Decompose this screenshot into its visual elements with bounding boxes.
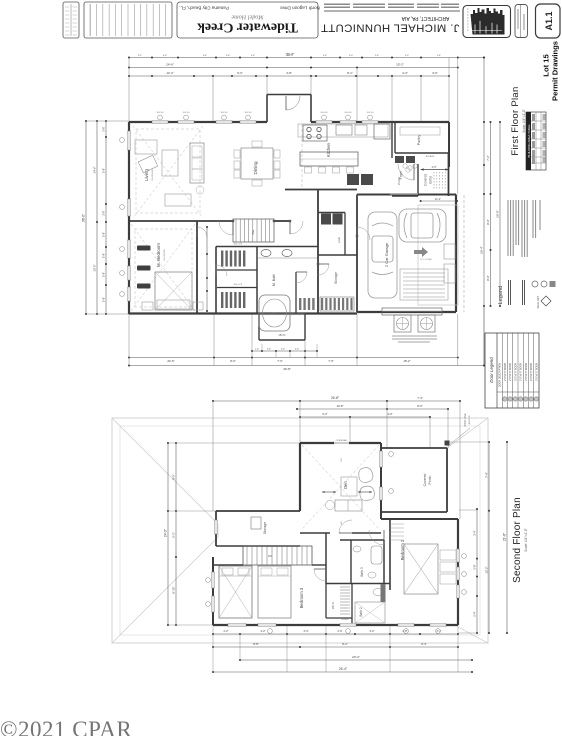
bed master	[155, 272, 192, 310]
svg-text:3050 SH: 3050 SH	[321, 112, 329, 114]
tub bay bump bottom	[258, 314, 260, 341]
svg-text:OPEN RAIL: OPEN RAIL	[336, 439, 348, 442]
svg-text:Kitchen: Kitchen	[326, 142, 331, 157]
svg-text:15'-2": 15'-2"	[403, 359, 410, 363]
svg-text:3'-2": 3'-2"	[370, 630, 375, 633]
title block: sheet info box	[63, 2, 79, 38]
wic (2nd floor)	[351, 584, 353, 625]
svg-text:BI-PASS: BI-PASS	[342, 618, 350, 621]
right wall pantry to garage	[448, 153, 450, 196]
svg-text:ARCHITECT, PA, AIA: ARCHITECT, PA, AIA	[401, 15, 449, 21]
svg-text:Lot 15: Lot 15	[542, 54, 551, 77]
legend: symbols	[532, 281, 538, 287]
svg-text:7'-0": 7'-0"	[277, 359, 283, 363]
svg-text:DN: DN	[268, 554, 272, 558]
svg-text:2'-8": 2'-8"	[403, 630, 408, 633]
svg-text:24'-6": 24'-6"	[167, 359, 174, 363]
entry closet dark band	[395, 156, 404, 163]
window tag circles (first floor)	[158, 115, 163, 120]
svg-text:W.I.C.: W.I.C.	[331, 601, 335, 609]
svg-text:2'-4": 2'-4"	[281, 349, 286, 351]
bed 2	[404, 544, 438, 594]
svg-text:Covered: Covered	[424, 174, 428, 186]
svg-text:JET: JET	[272, 313, 277, 315]
svg-text:Entry: Entry	[429, 176, 433, 184]
svg-text:First Floor Plan: First Floor Plan	[510, 86, 521, 155]
svg-text:6'6 x 7'6: 6'6 x 7'6	[234, 244, 243, 246]
stairs first floor	[233, 219, 274, 242]
appliances: range + sink icons	[303, 125, 327, 141]
svg-text:13'-2": 13'-2"	[485, 566, 489, 573]
kitchen counters	[298, 124, 388, 137]
svg-text:8'-0": 8'-0"	[486, 219, 490, 224]
garage walls	[357, 194, 456, 196]
garage door bottom	[382, 308, 442, 315]
svg-text:7'-4": 7'-4"	[417, 396, 423, 400]
bath 3	[350, 540, 352, 583]
svg-text:6'-2": 6'-2"	[172, 532, 176, 538]
svg-text:3'-0": 3'-0"	[163, 55, 167, 57]
svg-text:3'-6": 3'-6"	[102, 210, 106, 215]
window bars (egress)	[137, 246, 151, 289]
title block: project name box (Tidewater Creek)	[177, 2, 318, 38]
svg-text:3'-4": 3'-4"	[203, 55, 207, 57]
svg-text:4'-6": 4'-6"	[387, 412, 392, 416]
svg-text:2'-6": 2'-6"	[375, 55, 379, 57]
island	[300, 152, 358, 166]
svg-text:Bath 3: Bath 3	[360, 567, 364, 576]
bedroom 3	[212, 557, 214, 625]
svg-text:3'-6": 3'-6"	[102, 297, 106, 302]
svg-text:6'-4": 6'-4"	[421, 642, 427, 646]
svg-text:3'-6": 3'-6"	[102, 253, 106, 258]
dimension tiers: left	[85, 121, 87, 314]
dimension tiers: top (second floor)	[213, 400, 460, 402]
svg-text:Tidewater Creek: Tidewater Creek	[197, 20, 298, 35]
svg-text:4'-3": 4'-3"	[402, 71, 408, 75]
windows bottom wall (2nd)	[228, 623, 246, 626]
svg-text:26'-0": 26'-0"	[496, 210, 500, 218]
svg-text:DOOR DESCRIPTION: DOOR DESCRIPTION	[499, 363, 502, 387]
svg-text:8'-0": 8'-0"	[230, 359, 236, 363]
svg-text:3050 SH: 3050 SH	[245, 112, 253, 114]
svg-text:Den: Den	[343, 480, 348, 488]
svg-text:1'-2": 1'-2"	[255, 349, 260, 351]
title block: revisions box	[84, 2, 172, 38]
svg-text:8'-10": 8'-10"	[172, 586, 176, 593]
svg-text:26'-4": 26'-4"	[480, 246, 484, 254]
chase strip	[381, 584, 386, 602]
svg-text:Porch: Porch	[428, 475, 432, 484]
car 2 (horizontal sedan)	[399, 209, 446, 242]
svg-text:North Lagoon Drive: North Lagoon Drive	[280, 6, 320, 11]
svg-text:2'-0": 2'-0"	[349, 55, 353, 57]
svg-text:6'-0": 6'-0"	[237, 71, 243, 75]
dimension tiers: right	[483, 58, 485, 366]
svg-text:7'-2": 7'-2"	[486, 155, 490, 160]
walls: second floor den block	[300, 442, 334, 444]
svg-text:2'-8": 2'-8"	[226, 55, 230, 57]
walls: first floor perimeter	[129, 121, 267, 123]
svg-text:6'6 x 7'6: 6'6 x 7'6	[234, 284, 243, 286]
svg-text:2'-6": 2'-6"	[338, 630, 343, 633]
svg-text:24'-4": 24'-4"	[339, 667, 347, 671]
svg-text:2 Car Garage: 2 Car Garage	[384, 242, 389, 267]
door arcs first floor	[219, 221, 233, 235]
svg-text:Second Floor Plan: Second Floor Plan	[512, 497, 523, 583]
door to bedroom2	[369, 530, 384, 545]
svg-text:Storage: Storage	[263, 522, 267, 535]
legend: notes paragraphs	[507, 200, 509, 256]
den south wall	[300, 532, 330, 534]
tray ceiling dashed rects	[136, 129, 200, 213]
svg-text:2'-2": 2'-2"	[224, 630, 229, 633]
svg-text:8'-0": 8'-0"	[486, 275, 490, 280]
svg-text:48x72: 48x72	[278, 333, 286, 337]
svg-text:3050 SH: 3050 SH	[221, 112, 229, 114]
svg-text:2'-8"x6'-8" DOOR: 2'-8"x6'-8" DOOR	[521, 363, 523, 381]
svg-text:12'-4": 12'-4"	[166, 71, 173, 75]
garage bay light rect	[418, 205, 458, 305]
svg-text:Permit Drawings: Permit Drawings	[551, 41, 560, 101]
stairs 2nd floor	[243, 546, 312, 565]
closet 2 hatch	[390, 523, 404, 525]
svg-text:Door Legend: Door Legend	[489, 357, 494, 383]
cabinets right wall	[444, 244, 455, 259]
svg-text:2'-5": 2'-5"	[405, 55, 409, 57]
svg-text:15'-2": 15'-2"	[396, 63, 404, 67]
tub	[259, 295, 290, 331]
svg-text:BI-PASS: BI-PASS	[426, 155, 435, 158]
svg-text:40'-8": 40'-8"	[283, 367, 291, 371]
living ceiling dashed X	[133, 126, 203, 218]
pantry	[395, 152, 448, 154]
window tags second floor	[389, 452, 394, 457]
title block: architect seal/logo	[463, 6, 511, 38]
svg-text:Dining: Dining	[253, 161, 258, 174]
svg-text:Bath 2: Bath 2	[359, 607, 363, 616]
svg-text:6'-2": 6'-2"	[322, 412, 327, 416]
svg-text:5-0: 5-0	[341, 458, 343, 462]
covered porch (2nd)	[381, 447, 447, 449]
svg-text:2'-8"x6'-8" DOOR: 2'-8"x6'-8" DOOR	[536, 363, 538, 381]
roof outline (light)	[112, 418, 488, 643]
svg-text:24'-0": 24'-0"	[164, 529, 168, 537]
svg-text:2'-6": 2'-6"	[251, 55, 255, 57]
porch door/windows on den east wall	[379, 451, 382, 467]
svg-text:Model Home: Model Home	[231, 14, 264, 21]
svg-text:3'-6": 3'-6"	[102, 126, 106, 131]
svg-text:Scale: 1/4"=1'-0": Scale: 1/4"=1'-0"	[524, 528, 528, 552]
svg-text:BUILDING AREA TABLE: BUILDING AREA TABLE	[527, 125, 531, 158]
svg-text:2'-8"x6'-8" DOOR: 2'-8"x6'-8" DOOR	[531, 363, 533, 381]
svg-text:2'-6": 2'-6"	[295, 349, 300, 351]
svg-text:39'-8": 39'-8"	[286, 53, 295, 57]
svg-text:38'-0": 38'-0"	[82, 214, 86, 222]
svg-text:9'-0": 9'-0"	[172, 474, 176, 480]
svg-text:M. Bedroom: M. Bedroom	[156, 243, 161, 267]
svg-text:Storage: Storage	[334, 272, 338, 284]
svg-text:2'-4": 2'-4"	[267, 349, 272, 351]
extension lines left	[86, 120, 129, 122]
hall wall + stairs landing	[325, 533, 327, 584]
dimension tiers: bottom (first floor)	[252, 350, 317, 352]
windows on left wall	[127, 131, 130, 150]
svg-text:21'-8": 21'-8"	[503, 533, 507, 541]
bedroom 2	[381, 518, 458, 520]
furniture: dining table + chairs	[241, 148, 273, 179]
svg-text:Legend: Legend	[498, 286, 504, 304]
svg-text:5'-4": 5'-4"	[473, 611, 477, 616]
svg-text:3050 SH: 3050 SH	[183, 112, 191, 114]
svg-text:3'-6": 3'-6"	[102, 232, 106, 237]
table: door legend	[485, 333, 539, 408]
svg-text:21'-4": 21'-4"	[435, 198, 441, 201]
svg-text:10'-8": 10'-8"	[336, 404, 343, 408]
svg-text:3'-4": 3'-4"	[437, 630, 442, 633]
svg-text:WALL KEY: WALL KEY	[536, 295, 540, 308]
svg-text:M. Bath: M. Bath	[272, 274, 276, 286]
dimension tiers: bottom (second floor)	[213, 633, 458, 635]
svg-text:3050 SH: 3050 SH	[345, 112, 353, 114]
legend: wall type samples	[508, 280, 510, 305]
svg-text:2'-2": 2'-2"	[138, 55, 142, 57]
fridge	[374, 124, 390, 139]
svg-text:3'-4": 3'-4"	[304, 630, 309, 633]
covered entry interior dim	[421, 169, 449, 171]
dimension tiers: right (second floor)	[476, 509, 478, 633]
svg-text:A1.1: A1.1	[544, 11, 554, 30]
svg-text:Bedroom 3: Bedroom 3	[299, 587, 304, 608]
svg-text:7'-4": 7'-4"	[485, 472, 489, 478]
svg-text:3'-4": 3'-4"	[473, 530, 477, 535]
svg-text:4'-0": 4'-0"	[432, 166, 437, 169]
interior walls: first floor	[129, 220, 233, 222]
dimension tiers: top	[129, 57, 484, 59]
svg-text:Lndr: Lndr	[337, 237, 341, 243]
svg-text:2'-8"x6'-8" DOOR: 2'-8"x6'-8" DOOR	[526, 363, 528, 381]
svg-text:10ft CEILING: 10ft CEILING	[163, 249, 166, 261]
beds bedroom3 (two twins)	[219, 566, 252, 618]
svg-text:2ND FLR: 2ND FLR	[469, 415, 471, 425]
M.Bath sinks	[261, 250, 271, 257]
svg-text:24'-8": 24'-8"	[331, 396, 339, 400]
svg-text:10ft CEILING: 10ft CEILING	[151, 169, 154, 181]
svg-text:4'-2": 4'-2"	[261, 630, 266, 633]
foyer walls	[391, 122, 393, 158]
svg-text:ROOF LINE: ROOF LINE	[464, 413, 467, 426]
svg-text:Pantry: Pantry	[417, 135, 421, 146]
svg-text:16'-0 CLEAR: 16'-0 CLEAR	[420, 258, 432, 261]
slatted bed/trailer	[400, 269, 448, 300]
title block: project number box	[515, 5, 528, 38]
svg-text:2'-8"x6'-8" DOOR: 2'-8"x6'-8" DOOR	[510, 363, 512, 381]
svg-text:3'-8": 3'-8"	[286, 71, 292, 75]
svg-text:3050 SH: 3050 SH	[367, 112, 375, 114]
storage (2nd floor)	[216, 510, 300, 512]
windows left wall b3	[211, 572, 214, 588]
arrow mark	[414, 247, 428, 257]
svg-text:Covered: Covered	[423, 473, 427, 486]
svg-text:3'-6": 3'-6"	[432, 71, 438, 75]
svg-text:24'-6": 24'-6"	[166, 63, 174, 67]
title block: architect name	[324, 3, 350, 5]
svg-text:14'-6": 14'-6"	[93, 166, 97, 173]
svg-text:8'-8": 8'-8"	[253, 642, 259, 646]
extension lines top	[128, 58, 130, 123]
svg-text:Stair: Stair	[252, 229, 255, 234]
svg-text:2'-4": 2'-4"	[437, 55, 441, 57]
svg-text:13'-0": 13'-0"	[93, 264, 97, 271]
base cabinets dark	[347, 174, 359, 185]
interior door jamb dots	[232, 220, 234, 222]
watermark CPAR	[0, 717, 132, 736]
svg-text:3'-6": 3'-6"	[102, 272, 106, 277]
svg-text:2'-8"x6'-8" DOOR: 2'-8"x6'-8" DOOR	[515, 363, 517, 381]
svg-text:2'-8"x6'-8" DOOR: 2'-8"x6'-8" DOOR	[505, 363, 507, 381]
svg-text:Panama City Beach, FL.: Panama City Beach, FL.	[179, 6, 229, 11]
table: building area table	[526, 112, 546, 170]
furniture: living	[135, 140, 157, 154]
title block: sheet number A1.1	[536, 4, 561, 38]
svg-text:7'-0": 7'-0"	[328, 359, 334, 363]
svg-text:J. MICHAEL HUNNICUTT: J. MICHAEL HUNNICUTT	[321, 22, 460, 34]
entry steps dashed	[433, 172, 435, 190]
svg-text:3'-6": 3'-6"	[102, 168, 106, 173]
svg-text:2'-6": 2'-6"	[323, 55, 327, 57]
toilet compartment hatch	[299, 298, 315, 310]
dimension tiers: left (second floor)	[167, 443, 169, 625]
windows bedroom2 right wall	[456, 549, 459, 562]
svg-text:Scale: 1/4"=1'-0": Scale: 1/4"=1'-0"	[522, 109, 526, 133]
svg-text:8'-0": 8'-0"	[417, 404, 423, 408]
svg-text:8'-1": 8'-1"	[347, 71, 353, 75]
windows on top wall	[152, 120, 168, 123]
svg-text:2'-8": 2'-8"	[473, 564, 477, 569]
svg-text:23'-2": 23'-2"	[352, 655, 360, 659]
AC units	[394, 315, 411, 332]
fireplace bump top	[266, 95, 268, 123]
svg-text:8'-2": 8'-2"	[342, 642, 348, 646]
car 1 (vertical pickup)	[368, 212, 397, 298]
svg-text:3050 SH: 3050 SH	[157, 112, 165, 114]
